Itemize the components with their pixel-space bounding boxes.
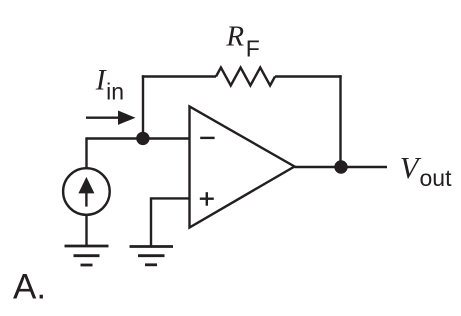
wire: feedback right vertical down to output node: [339, 75, 341, 167]
wire: input horizontal from source corner to op-amp inverting input: [87, 137, 190, 139]
svg-text:out: out: [420, 165, 453, 191]
op-amp plus sign (non-inverting input): [200, 197, 214, 199]
node: inverting input junction dot: [136, 132, 149, 145]
ground: below current source: [65, 245, 109, 248]
svg-text:I: I: [95, 64, 107, 96]
op-amp minus sign (inverting input): [200, 137, 214, 139]
wire: current source top vertical: [85, 137, 87, 167]
node: output junction dot: [334, 160, 347, 173]
arrow: current source internal up arrow: [85, 189, 87, 207]
wire: current source bottom vertical to ground: [85, 215, 87, 246]
svg-text:F: F: [246, 35, 260, 61]
op-amp U1 triangle: [190, 107, 295, 228]
wire: feedback top, left segment: [142, 75, 216, 77]
svg-text:in: in: [106, 78, 124, 104]
wire: non-inverting input to ground corner: [151, 198, 190, 246]
wire: op-amp output to Vout: [295, 166, 388, 168]
svg-text:R: R: [225, 20, 244, 52]
arrow: input current direction: [86, 116, 121, 118]
current source I symbol circle: [63, 168, 110, 215]
wire: feedback left vertical from inverting node up: [142, 75, 144, 138]
ground: at non-inverting input: [130, 245, 174, 248]
resistor RF zigzag: [216, 68, 275, 86]
wire: feedback top, right segment: [275, 75, 342, 77]
svg-text:A.: A.: [13, 267, 46, 306]
svg-text:V: V: [400, 151, 422, 185]
